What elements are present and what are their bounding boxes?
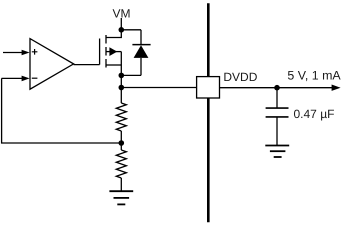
node: capacitor tap on output wire	[274, 85, 280, 91]
node: feedback tap	[119, 140, 125, 146]
wire: node to diode cathode	[121, 29, 141, 31]
transistor Q1 (pass FET)	[100, 30, 122, 76]
ground (below C1)	[265, 146, 289, 158]
resistor R2	[116, 150, 126, 178]
svg-text:DVDD: DVDD	[223, 70, 257, 84]
wire: tap to DVDD pin	[121, 87, 196, 89]
wire: op-amp output to gate	[74, 64, 100, 66]
svg-text:0.47 µF: 0.47 µF	[294, 107, 335, 121]
wire: VM stub	[120, 18, 122, 30]
op-amp U1	[30, 39, 74, 90]
wire: DVDD pin to load with arrow	[220, 85, 341, 91]
wire: non-inverting input lead with arrow	[3, 50, 30, 56]
pin DVDD (terminal box)	[197, 77, 220, 98]
svg-text:5 V, 1 mA: 5 V, 1 mA	[287, 68, 341, 82]
node: VM / drain / diode cathode junction	[119, 27, 125, 33]
node: tap to DVDD pin wire	[119, 85, 125, 91]
wire: inverting input lead with arrow	[2, 76, 30, 82]
wire: tap to R2	[120, 143, 122, 150]
diode D1 (body diode)	[121, 30, 150, 76]
wire: R1 to feedback tap	[120, 131, 122, 143]
wire: source node down through DVDD tap to divider	[120, 75, 122, 103]
svg-text:VM: VM	[113, 6, 131, 20]
wire: R2 to ground	[120, 178, 122, 191]
capacitor C1	[266, 88, 289, 146]
wire: feedback from divider tap to inverting input	[2, 78, 122, 143]
device boundary (DVDD pin bar)	[207, 3, 210, 222]
ground (below R2)	[109, 191, 133, 204]
resistor R1	[116, 103, 126, 131]
node: source / diode anode junction	[119, 73, 125, 79]
